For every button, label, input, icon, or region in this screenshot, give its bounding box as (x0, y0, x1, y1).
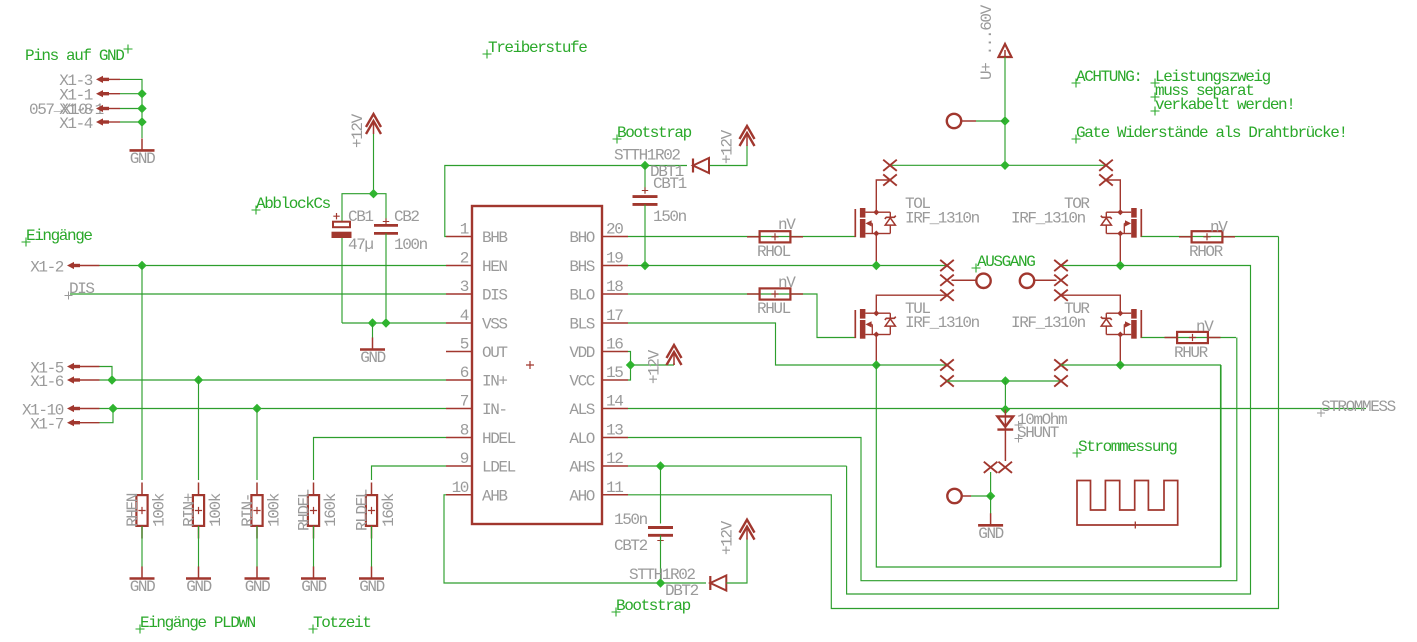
wire VDD VCC to +12V (628, 352, 631, 381)
svg-text:Treiberstufe: Treiberstufe (488, 39, 587, 57)
svg-text:Eingänge PLDWN: Eingänge PLDWN (140, 614, 256, 632)
node bootstrap1 junction (640, 161, 649, 170)
svg-text:GND: GND (130, 578, 155, 596)
svg-text:OUT: OUT (482, 344, 507, 362)
svg-text:STTH1R02: STTH1R02 (614, 147, 680, 165)
wire TOL source to phase (875, 234, 877, 266)
wire DIS to pin3 (70, 293, 446, 295)
svg-text:nV: nV (778, 216, 796, 234)
svg-text:IRF_1310n: IRF_1310n (905, 314, 980, 332)
wire to TOR drain (1106, 180, 1120, 212)
wire IN- pulldown trunk (256, 409, 258, 481)
node X1-10 junctions (108, 404, 117, 413)
svg-text:GND: GND (359, 578, 384, 596)
node top rail junction (1000, 161, 1009, 170)
wire phase-right to AHS loop (847, 266, 1251, 595)
wire AHO to RHOR loop (628, 237, 1279, 609)
svg-text:RHUR: RHUR (1174, 344, 1209, 362)
ground GND RLDEL (371, 567, 373, 579)
pin 5 OUT (446, 351, 472, 353)
svg-text:verkabelt werden!: verkabelt werden! (1155, 96, 1294, 114)
wire source cross-link lower (1220, 365, 1222, 567)
wire GND-pin bus (120, 79, 142, 138)
resistor RHUL nV (760, 288, 791, 299)
svg-text:nV: nV (1210, 219, 1228, 237)
node phase-right junction (1116, 261, 1125, 270)
svg-text:CBT1: CBT1 (653, 175, 687, 193)
svg-text:X1-2: X1-2 (30, 259, 64, 277)
wire RLDEL to ground (371, 526, 373, 567)
svg-text:RHOR: RHOR (1189, 243, 1224, 261)
shunt SHUNT 10mOhm (1004, 410, 1006, 417)
svg-text:13: 13 (606, 422, 623, 440)
svg-text:IRF_1310n: IRF_1310n (1011, 210, 1086, 228)
wire BLO to RHUL (628, 294, 855, 338)
svg-text:3: 3 (460, 278, 469, 296)
wire BLS to source rail (628, 323, 876, 365)
resistor RHOR nV (1192, 231, 1223, 242)
svg-text:GND: GND (130, 150, 155, 168)
svg-text:100k: 100k (266, 493, 284, 527)
ground GND RHEN (141, 567, 143, 579)
svg-text:IRF_1310n: IRF_1310n (1011, 314, 1086, 332)
svg-text:8: 8 (460, 422, 469, 440)
node bootstrap2 junction (656, 578, 665, 587)
svg-text:10: 10 (452, 479, 469, 497)
pin 6 IN+ (446, 379, 472, 381)
svg-text:Bootstrap: Bootstrap (616, 597, 691, 615)
wire X1-6 to IN+ (100, 379, 447, 381)
wire shunt feed (1004, 381, 1006, 410)
wire TOR gate to RHOR (1142, 236, 1279, 238)
svg-text:DIS: DIS (69, 280, 94, 298)
svg-text:AHS: AHS (569, 459, 594, 477)
node U+ junction (1000, 116, 1009, 125)
resistor RHDEL 160k (308, 495, 319, 526)
svg-text:IN+: IN+ (482, 373, 507, 391)
transistor TUR IRF_1310n (1140, 310, 1142, 338)
pin 20 BHO (602, 236, 628, 238)
node X1-6 junctions (107, 375, 116, 384)
pin 11 AHO (602, 494, 628, 496)
connector pad U+ circle (947, 114, 961, 128)
svg-text:GND: GND (360, 349, 385, 367)
resistor RIN+ 100k (193, 495, 204, 526)
jumper X column ausgang-left (940, 260, 954, 271)
svg-text:47µ: 47µ (348, 236, 373, 254)
svg-text:7: 7 (460, 393, 469, 411)
pin 7 IN- (446, 408, 472, 410)
pin 10 AHB (446, 494, 472, 496)
pin 1 BHB (446, 236, 472, 238)
pin 8 HDEL (446, 437, 472, 439)
svg-text:BHS: BHS (569, 258, 594, 276)
wire X1-5 down (100, 367, 113, 381)
ground GND RIN+ (198, 567, 200, 579)
svg-text:18: 18 (606, 278, 623, 296)
resistor RHEN 100k (136, 495, 147, 526)
svg-text:GND: GND (301, 578, 326, 596)
pin 2 HEN (446, 265, 472, 267)
svg-text:5: 5 (460, 336, 469, 354)
supply +12V bootstrap1 (740, 126, 755, 139)
capacitor CB2 100n (374, 224, 398, 227)
wire TOR source to phase (1119, 234, 1121, 266)
svg-text:6: 6 (460, 364, 469, 382)
wire BHB to bootstrap node (445, 166, 687, 237)
node VDD junction (626, 360, 635, 369)
svg-text:160k: 160k (380, 493, 398, 527)
wire top power rail (890, 164, 1106, 166)
capacitor CB1 47u electrolytic (333, 222, 350, 228)
node CBT1-BHS junction (640, 261, 649, 270)
svg-text:SHUNT: SHUNT (1017, 424, 1059, 442)
wire +12V to capacitors (342, 194, 386, 223)
wire X1-7 up (100, 409, 114, 423)
jumper X top-right pair (1099, 160, 1113, 171)
wire TUR drain (1061, 295, 1120, 313)
wire AHS to CBT2 and loop (628, 465, 847, 467)
svg-text:AHO: AHO (569, 487, 594, 505)
ground GND AbblockCs (372, 323, 374, 338)
pin 19 BHS (602, 265, 628, 267)
pin 15 VCC (602, 379, 628, 381)
svg-text:Totzeit: Totzeit (313, 614, 370, 632)
svg-text:Gate Widerstände als Drahtbrüc: Gate Widerstände als Drahtbrücke! (1076, 124, 1347, 142)
wire HEN pulldown trunk (141, 266, 143, 481)
supply +12V bootstrap2 (740, 520, 755, 533)
transistor TUL IRF_1310n (854, 310, 856, 338)
ground GND RHDEL (313, 567, 315, 579)
svg-text:2: 2 (460, 250, 469, 268)
svg-text:RHOL: RHOL (757, 243, 791, 261)
svg-text:Eingänge: Eingänge (26, 227, 92, 245)
wire DBT2 to +12V (726, 538, 747, 583)
svg-text:CB1: CB1 (348, 208, 373, 226)
wire TUL source (875, 335, 877, 366)
pin 13 ALO (602, 437, 628, 439)
wire shunt to gnd node (990, 472, 992, 496)
wire RHEN to ground (141, 526, 143, 567)
svg-text:HEN: HEN (482, 258, 507, 276)
pin 17 BLS (602, 322, 628, 324)
jumper X shunt pair (984, 462, 998, 473)
pin 14 ALS (602, 408, 628, 410)
wire AHB loop (444, 495, 706, 583)
svg-text:RLDEL: RLDEL (354, 489, 372, 531)
jumper X top-left pair (883, 160, 897, 171)
node cap-gnd junctions (368, 318, 377, 327)
wire LDEL to RLDEL (372, 466, 447, 480)
svg-text:+12V: +12V (349, 113, 367, 148)
svg-text:nV: nV (1196, 318, 1214, 336)
pin 12 AHS (602, 465, 628, 467)
jumper X lower-right pair (1054, 375, 1068, 386)
svg-text:RHUL: RHUL (757, 300, 791, 318)
node gnd junction (986, 491, 995, 500)
wire ALO to RHUR loop (628, 338, 1237, 581)
svg-text:BLS: BLS (569, 316, 594, 334)
svg-text:X1-7: X1-7 (30, 416, 64, 434)
capacitor CBT2 150n (660, 466, 662, 524)
svg-text:U+ ...60V: U+ ...60V (978, 4, 996, 80)
svg-text:RIN+: RIN+ (181, 493, 199, 527)
svg-text:150n: 150n (614, 511, 648, 529)
svg-text:GND: GND (186, 578, 211, 596)
svg-text:Pins auf GND: Pins auf GND (25, 47, 124, 65)
svg-text:11: 11 (606, 479, 623, 497)
wire X1-2 to HEN (100, 265, 447, 267)
wire HDEL to RHDEL (314, 438, 447, 481)
wire TUR gate to RHUR (1142, 337, 1236, 339)
svg-text:100k: 100k (207, 493, 225, 527)
resistor RLDEL 160k (366, 495, 377, 526)
svg-text:AbblockCs: AbblockCs (256, 195, 331, 213)
svg-text:15: 15 (606, 364, 623, 382)
node HEN junction (137, 261, 146, 270)
jumper X column ausgang-right (1054, 260, 1068, 271)
wire source cross-link (876, 365, 1220, 567)
connector pad AUSGANG right (1034, 279, 1056, 281)
wire RIN- to ground (256, 526, 258, 567)
svg-text:100n: 100n (394, 236, 428, 254)
svg-text:HDEL: HDEL (482, 430, 516, 448)
wire BHS row (628, 265, 947, 267)
wire capacitor bottoms to VSS (341, 238, 343, 323)
wire BHO to RHOL (628, 236, 855, 238)
svg-text:VSS: VSS (482, 316, 507, 334)
svg-text:+12V: +12V (719, 520, 737, 555)
node phase-left junction (872, 261, 881, 270)
svg-text:VDD: VDD (569, 344, 594, 362)
svg-text:STROMMESS: STROMMESS (1321, 398, 1396, 416)
transistor TOL IRF_1310n (854, 209, 856, 237)
wire to TOL drain (876, 180, 890, 212)
svg-text:16: 16 (606, 336, 623, 354)
svg-text:ALS: ALS (569, 401, 594, 419)
svg-text:20: 20 (606, 221, 623, 239)
svg-text:RHDEL: RHDEL (296, 489, 314, 531)
svg-text:AHB: AHB (482, 487, 507, 505)
svg-text:IRF_1310n: IRF_1310n (905, 210, 980, 228)
wire X1-10 to IN- (100, 408, 447, 410)
wire RIN+ to ground (198, 526, 200, 567)
connector pad gnd circle (947, 489, 961, 503)
wire RHDEL to ground (313, 526, 315, 567)
svg-text:BLO: BLO (569, 287, 594, 305)
pin 4 VSS (446, 322, 472, 324)
svg-text:12: 12 (606, 450, 623, 468)
pin 9 LDEL (446, 465, 472, 467)
ground GND top-left (141, 138, 143, 150)
op-amp driver IC U1 body (472, 206, 602, 524)
supply +12V AbblockCs (366, 114, 381, 127)
svg-text:BHO: BHO (569, 229, 594, 247)
wire DBT1 to +12V (710, 145, 747, 166)
svg-text:Strommessung: Strommessung (1078, 438, 1177, 456)
supply +12V VDD (667, 345, 682, 358)
connector pad AUSGANG left (952, 279, 977, 281)
wire TUL drain (876, 295, 947, 313)
svg-text:RIN-: RIN- (239, 494, 257, 527)
svg-text:150n: 150n (653, 208, 687, 226)
ground GND RIN- (256, 567, 258, 579)
pin 3 DIS (446, 293, 472, 295)
svg-text:CB2: CB2 (394, 208, 419, 226)
svg-text:+12V: +12V (719, 129, 737, 164)
svg-text:LDEL: LDEL (482, 459, 516, 477)
svg-text:BHB: BHB (482, 229, 507, 247)
node CBT2 top junction (656, 461, 665, 470)
resistor RHOL nV (760, 231, 791, 242)
wire ALS shunt STROMMESS net (628, 408, 1366, 410)
svg-text:IN-: IN- (482, 401, 507, 419)
svg-text:nV: nV (778, 274, 796, 292)
svg-text:1: 1 (460, 221, 469, 239)
pin 18 BLO (602, 293, 628, 295)
svg-text:160k: 160k (322, 493, 340, 527)
node shunt top junction (1001, 405, 1010, 414)
wire TUR source (1119, 335, 1121, 366)
shunt meander symbol (1077, 481, 1178, 526)
svg-text:+12V: +12V (646, 349, 664, 384)
node junctions on GND bus (137, 89, 146, 98)
svg-text:GND: GND (245, 578, 270, 596)
svg-text:19: 19 (606, 250, 623, 268)
svg-text:X1-4: X1-4 (59, 115, 93, 133)
jumper X lower-left pair (940, 359, 954, 370)
wire IN+ pulldown trunk (198, 380, 200, 480)
svg-text:ALO: ALO (569, 430, 594, 448)
svg-text:VCC: VCC (569, 373, 594, 391)
svg-text:AUSGANG: AUSGANG (977, 253, 1035, 271)
wire source-left rail (876, 364, 947, 366)
svg-text:RHEN: RHEN (124, 493, 142, 527)
svg-text:9: 9 (460, 450, 469, 468)
node source-left junction (872, 360, 881, 369)
svg-text:DIS: DIS (482, 287, 507, 305)
wire source-right rail (1061, 364, 1221, 366)
resistor RIN- 100k (251, 495, 262, 526)
svg-text:Bootstrap: Bootstrap (617, 124, 692, 142)
wire shunt rail (947, 380, 1061, 382)
svg-text:ACHTUNG:: ACHTUNG: (1076, 68, 1142, 86)
node +12V junction (369, 189, 378, 198)
svg-text:4: 4 (460, 307, 469, 325)
node source-right junction (1116, 360, 1125, 369)
node shunt rail junction (1001, 376, 1010, 385)
transistor TOR IRF_1310n (1140, 209, 1142, 237)
svg-text:17: 17 (606, 307, 623, 325)
svg-text:CBT2: CBT2 (614, 537, 648, 555)
resistor RHUR nV (1177, 332, 1208, 343)
ground GND shunt (990, 496, 992, 514)
pin 16 VDD (602, 351, 628, 353)
svg-text:GND: GND (978, 525, 1003, 543)
svg-text:14: 14 (606, 393, 623, 411)
svg-text:X1-6: X1-6 (30, 373, 64, 391)
svg-text:100k: 100k (151, 493, 169, 527)
